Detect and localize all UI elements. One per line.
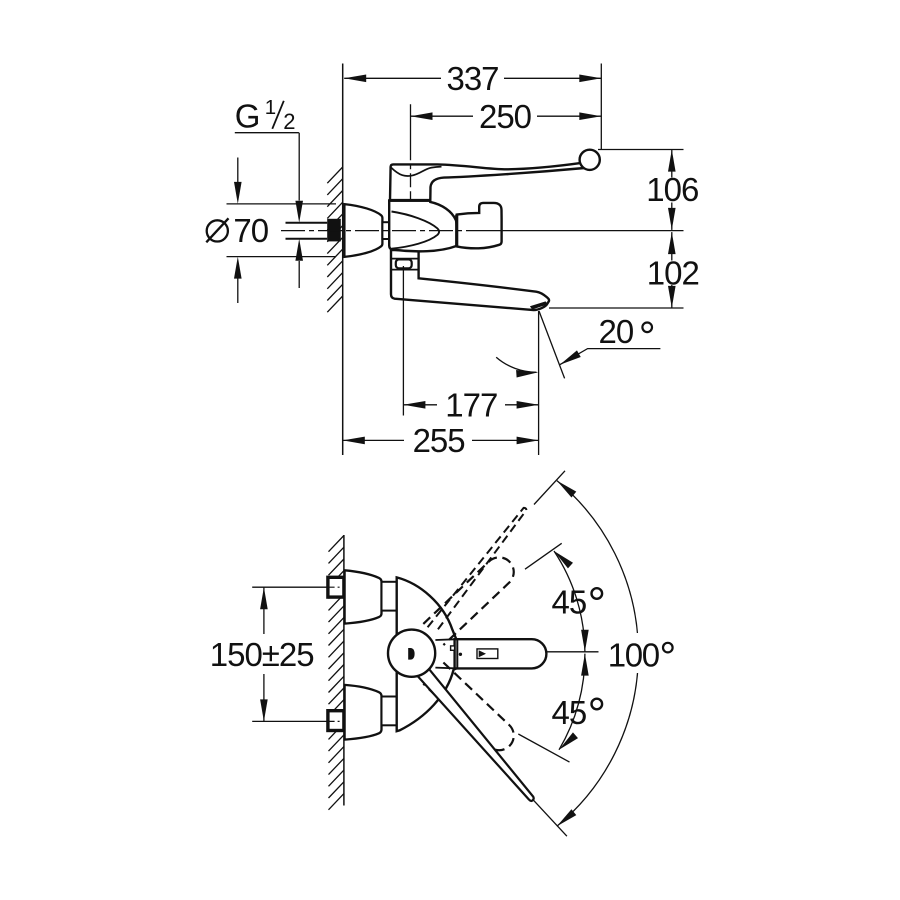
dimension 255: [343, 439, 539, 441]
svg-text:102: 102: [647, 254, 699, 291]
svg-text:2: 2: [283, 109, 295, 134]
svg-text:70: 70: [233, 212, 268, 249]
spout (plan): [455, 639, 547, 668]
svg-text:150±25: 150±25: [210, 636, 314, 673]
svg-text:177: 177: [445, 387, 497, 424]
escutcheon neck: [382, 222, 390, 239]
escutcheon (side view): [344, 204, 382, 257]
100 arc radial extension (top): [534, 471, 565, 505]
spout tip extension line: [538, 311, 540, 455]
spout handle inset: [477, 649, 498, 659]
dimension 150 +/- 25: [263, 587, 265, 721]
45 upper radial extension: [525, 543, 562, 569]
100 degree swing arc: [557, 481, 638, 827]
svg-text:20: 20: [599, 313, 634, 350]
body dome (plan): [397, 577, 457, 731]
svg-text:G: G: [235, 98, 261, 135]
upper union nut: [328, 577, 344, 597]
nut centerlines: [328, 586, 347, 588]
dimension 106 / 102: [549, 150, 684, 309]
dimension 337: [344, 64, 601, 150]
20 degree leader: [560, 349, 661, 365]
spout detail dot: [459, 653, 462, 656]
lower escutcheon neck: [382, 697, 397, 726]
svg-text:45: 45: [552, 694, 587, 731]
spout joint line: [456, 639, 458, 668]
upper escutcheon (plan): [345, 570, 382, 623]
lower escutcheon (plan): [345, 685, 382, 740]
diameter symbol: [207, 220, 228, 241]
svg-text:255: 255: [413, 422, 465, 459]
upper escutcheon neck: [382, 582, 397, 611]
45 degree arc (lower): [559, 654, 585, 750]
svg-text:100: 100: [608, 637, 660, 674]
vertical centerline of cartridge: [410, 104, 412, 200]
screw head: [396, 259, 412, 268]
45 lower radial extension: [518, 734, 569, 762]
spout clip detail: [451, 646, 455, 650]
cap saddle curve: [391, 167, 441, 176]
cartridge nose contour: [392, 212, 440, 249]
wall line (side view): [342, 64, 344, 456]
wall hatching (side view): [327, 167, 342, 312]
cartridge cap circle: [388, 630, 435, 677]
dashed spout at -45 (down): [423, 663, 513, 751]
aerator outlet (black): [530, 301, 548, 309]
20 degree slant line: [539, 311, 565, 378]
svg-text:45: 45: [552, 583, 587, 620]
dimension 177: [403, 266, 538, 416]
mixer body: [389, 201, 457, 252]
100 arc radial extension (bottom): [534, 800, 567, 836]
wall line (plan view): [343, 535, 345, 806]
horizontal centerline: [281, 230, 475, 232]
body/housing joint line: [455, 215, 458, 247]
cartridge D mark: [408, 648, 414, 660]
wall hatching (plan view): [329, 536, 344, 810]
lever (solid): [417, 667, 533, 801]
lever cap and handle arm: [390, 163, 585, 201]
svg-text:1: 1: [265, 96, 276, 119]
wall anchor (black): [327, 219, 341, 242]
dashed lever extreme position: [428, 508, 527, 633]
svg-text:106: 106: [646, 171, 698, 208]
cap base line: [390, 199, 430, 202]
handle knob: [580, 150, 600, 170]
dimension 250: [411, 115, 602, 117]
spout neck lines: [435, 638, 454, 641]
svg-text:250: 250: [479, 98, 532, 135]
lower union nut: [328, 711, 344, 731]
20 degree arc: [496, 357, 536, 372]
45 degree arc (upper): [554, 551, 585, 652]
dimension diameter 70: [227, 158, 337, 304]
label 100: [601, 633, 681, 673]
spout axis reference line: [547, 651, 599, 653]
svg-text:337: 337: [446, 60, 498, 97]
spout mount block: [391, 250, 549, 310]
check-valve housing: [457, 203, 502, 248]
screw recess lines: [391, 258, 418, 260]
G1/2 leader: [235, 133, 299, 288]
dashed spout at +45 (up): [423, 557, 513, 645]
G1/2 supply pipe stub: [286, 223, 328, 239]
150 dimension extension lines: [252, 586, 327, 588]
